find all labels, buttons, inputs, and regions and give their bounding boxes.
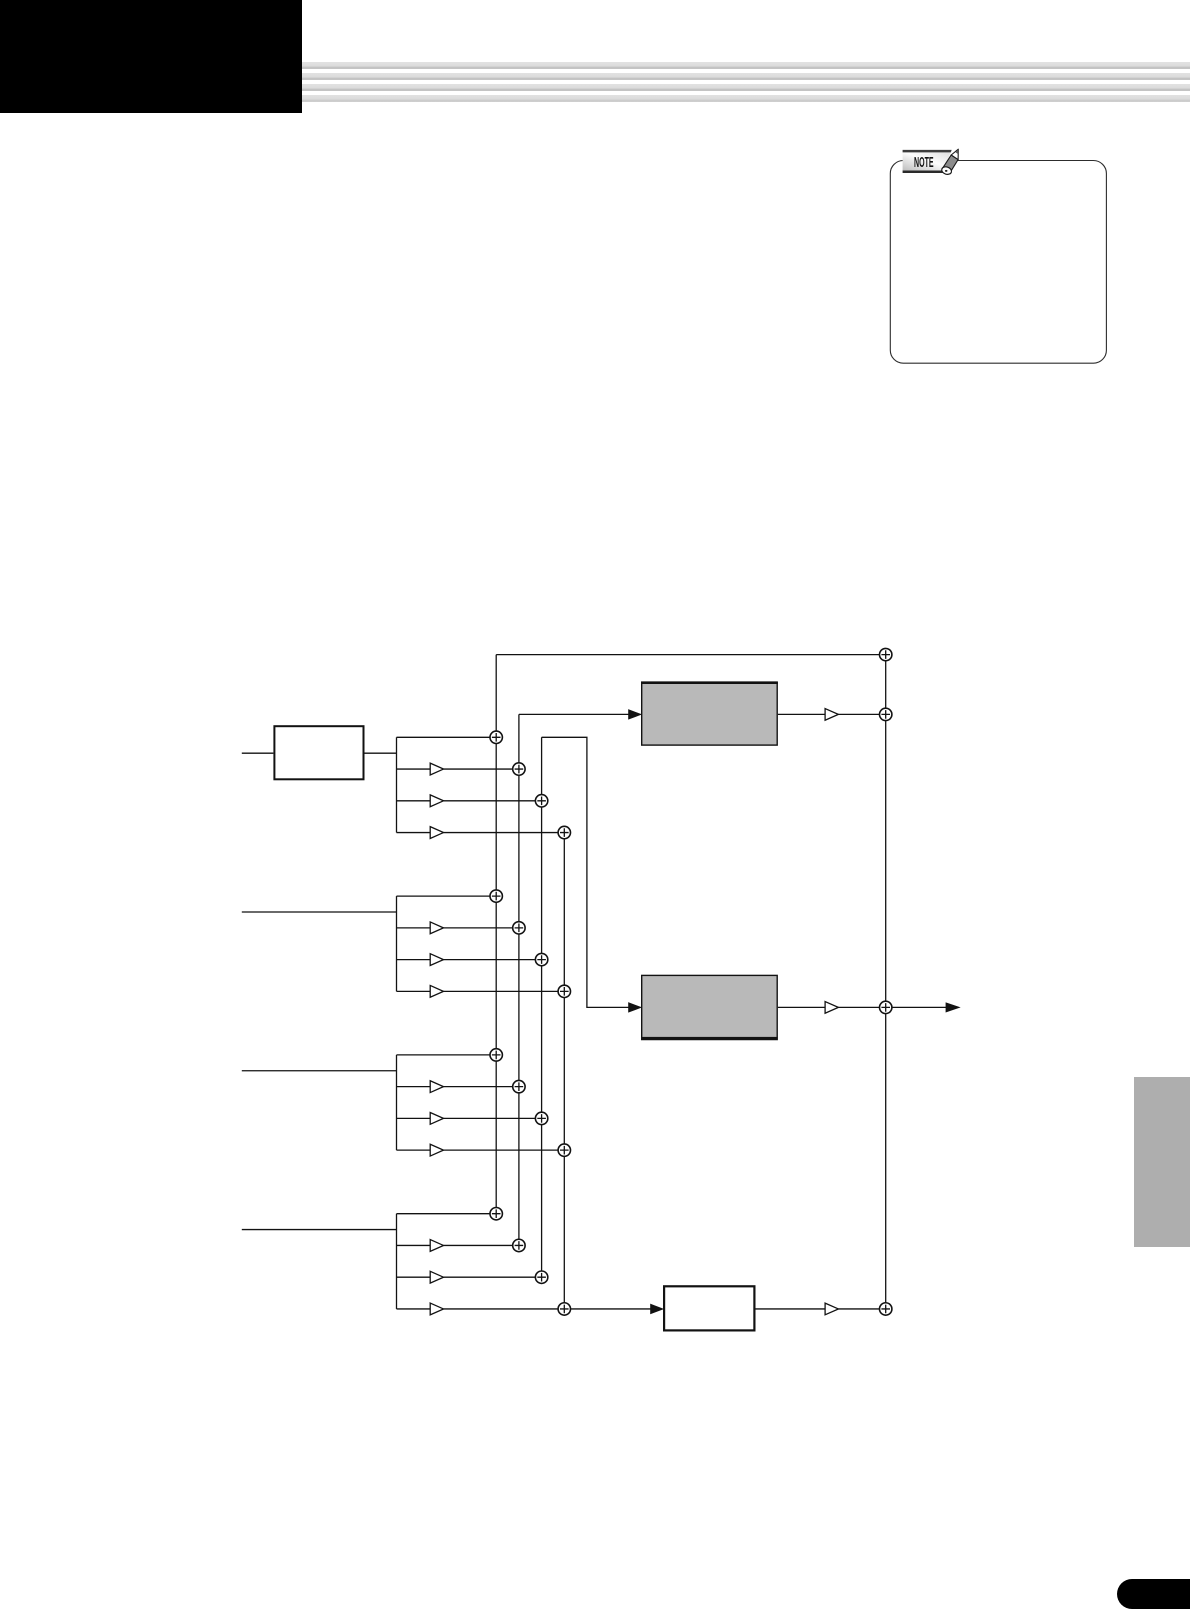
wire part 4 row2 to node [444, 1244, 513, 1246]
wire part 4 row2 stub [397, 1244, 431, 1246]
wire part 2 dry row [397, 895, 491, 897]
wire part 3 input lead [242, 1070, 397, 1072]
wire part 2 row4 stub [397, 990, 431, 992]
wire part 4 row4 to node [444, 1308, 559, 1310]
wire input block output [365, 752, 397, 754]
wire part 3 row3 to node [444, 1117, 536, 1119]
arrowhead into reverb block [629, 710, 641, 719]
wire part 2 distribution bracket [396, 896, 398, 991]
amp part 1 send level 3 [430, 827, 443, 839]
amp chorus return level [825, 1002, 838, 1014]
wire bus4 vertical (variation send bus) [563, 833, 565, 1309]
summing node bus3 part 2 [535, 953, 547, 965]
header stripe 1 [302, 62, 1190, 69]
chorus effect block [641, 975, 778, 1039]
wire variation block output [756, 1308, 826, 1310]
NOTE tag banner [903, 150, 952, 173]
summing node bus2 part 3 [513, 1080, 525, 1092]
wire part 2 row4 to node [444, 990, 559, 992]
amp part 2 send level 3 [430, 985, 443, 997]
wire bus3 vertical (chorus send bus) [541, 737, 543, 1277]
amp part 3 send level 2 [430, 1113, 443, 1125]
summing node reverb return [880, 708, 892, 720]
wire part 1 row2 to node [444, 768, 513, 770]
wire part 1 dry row [397, 736, 491, 738]
summing node bus4 part 2 [558, 985, 570, 997]
summing node bus4 part 4 [558, 1303, 570, 1315]
summing node bus2 part 1 [513, 763, 525, 775]
wire part 1 input lead [242, 752, 274, 754]
summing node bus1 part 1 [490, 731, 502, 743]
header stripe 4 [302, 95, 1190, 102]
wire part 4 row3 to node [444, 1276, 536, 1278]
wire part 1 row4 to node [444, 832, 559, 834]
wire part 4 input lead [242, 1229, 397, 1231]
wire chorus block output [778, 1006, 825, 1008]
header block (black title band) [0, 0, 302, 113]
summing node bus2 part 2 [513, 922, 525, 934]
amp part 4 send level 3 [430, 1303, 443, 1315]
summing node chorus return / output [880, 1001, 892, 1013]
wire part 2 input lead [242, 911, 397, 913]
wire bus2 top corner to reverb arrow [519, 713, 629, 715]
input block (part 1 source) [274, 726, 363, 779]
summing node bus3 part 3 [535, 1112, 547, 1124]
wire part 2 row2 stub [397, 927, 431, 929]
summing node bus1 part 4 [490, 1208, 502, 1220]
wire variation send to arrow [570, 1308, 650, 1310]
wire part 1 row3 to node [444, 800, 536, 802]
NOTE tag pencil [941, 149, 959, 175]
reverb effect block [641, 683, 778, 745]
wire part 4 row3 stub [397, 1276, 431, 1278]
wire reverb return to node [838, 713, 879, 715]
summing node bus4 part 1 [558, 826, 570, 838]
summing node bus1 part 2 [490, 890, 502, 902]
amp part 4 send level 1 [430, 1240, 443, 1252]
amp variation return level [825, 1303, 838, 1315]
amp part 3 send level 1 [430, 1081, 443, 1093]
amp part 2 send level 2 [430, 954, 443, 966]
summing node variation return [880, 1303, 892, 1315]
wire part 1 row3 stub [397, 800, 431, 802]
wire part 1 distribution bracket [396, 737, 398, 832]
amp part 2 send level 1 [430, 922, 443, 934]
arrowhead into variation block [651, 1304, 663, 1313]
wire part 4 distribution bracket [396, 1214, 398, 1309]
summing node bus3 part 4 [535, 1271, 547, 1283]
wire part 2 row2 to node [444, 927, 513, 929]
wire part 3 distribution bracket [396, 1055, 398, 1150]
wire part 3 row4 to node [444, 1149, 559, 1151]
wire part 2 row3 to node [444, 959, 536, 961]
wire dry-sum top (bus1 to right bus) [496, 654, 886, 656]
NOTE box frame [890, 161, 1106, 364]
wire right output bus [885, 655, 887, 1309]
wire part 3 row2 to node [444, 1086, 513, 1088]
wire part 3 row2 stub [397, 1086, 431, 1088]
wire part 2 row3 stub [397, 959, 431, 961]
amp part 4 send level 2 [430, 1271, 443, 1283]
header stripe 3 [302, 84, 1190, 91]
amp part 1 send level 2 [430, 795, 443, 807]
wire variation return to node [838, 1308, 879, 1310]
header stripe 2 [302, 73, 1190, 80]
wire part 1 row4 stub [397, 832, 431, 834]
summing node bus1 part 3 [490, 1049, 502, 1061]
wire part 3 row4 stub [397, 1149, 431, 1151]
amp part 3 send level 3 [430, 1144, 443, 1156]
arrowhead into chorus block [629, 1003, 641, 1012]
wire chorus return to node [838, 1006, 879, 1008]
summing node bus2 part 4 [513, 1239, 525, 1251]
wire reverb block output [778, 713, 825, 715]
page number pill [1117, 1579, 1190, 1609]
variation effect block [664, 1286, 754, 1330]
amp reverb return level [825, 709, 838, 721]
svg-text:NOTE: NOTE [914, 155, 934, 170]
arrowhead final output [946, 1003, 959, 1012]
wire part 4 dry row [397, 1213, 491, 1215]
summing node bus4 part 3 [558, 1144, 570, 1156]
amp part 1 send level 1 [430, 763, 443, 775]
wire part 4 row4 stub [397, 1308, 431, 1310]
wire part 1 row2 stub [397, 768, 431, 770]
wire bus2 vertical (reverb send bus) [518, 714, 520, 1245]
wire bus1 vertical (dry sum bus) [495, 655, 497, 1214]
summing node dry/right-bus top [880, 648, 892, 660]
wire bus3 pi-top to chorus down-lead [542, 737, 629, 1007]
wire part 3 dry row [397, 1054, 491, 1056]
summing node bus3 part 1 [535, 795, 547, 807]
wire part 3 row3 stub [397, 1117, 431, 1119]
wire final output [892, 1006, 946, 1008]
side index tab [1134, 1077, 1190, 1247]
